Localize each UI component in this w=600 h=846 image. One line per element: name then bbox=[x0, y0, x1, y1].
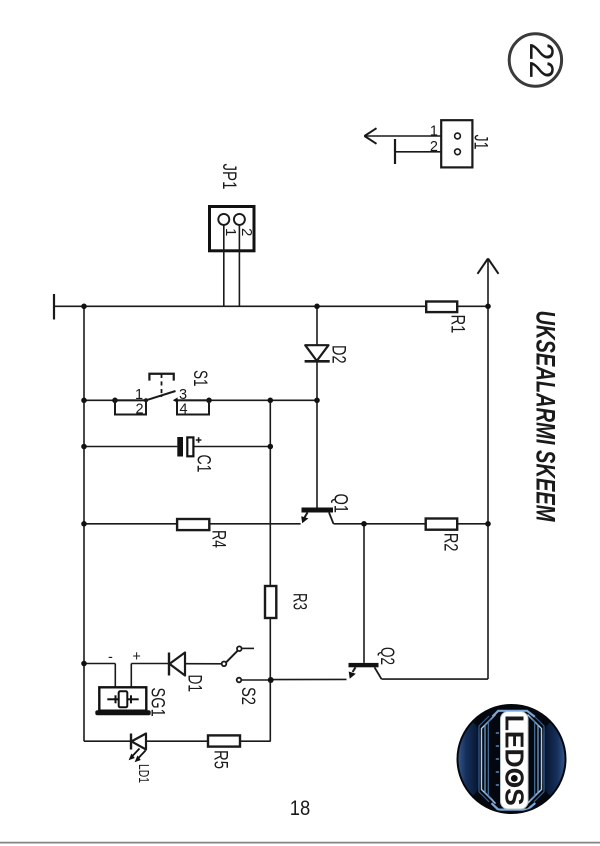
svg-text:LEDOS: LEDOS bbox=[500, 715, 530, 806]
svg-text:S1: S1 bbox=[189, 370, 210, 387]
svg-text:18: 18 bbox=[290, 797, 311, 820]
svg-text:2: 2 bbox=[430, 139, 438, 155]
svg-text:R4: R4 bbox=[208, 530, 229, 548]
svg-text:R3: R3 bbox=[288, 593, 309, 610]
svg-text:JP1: JP1 bbox=[218, 164, 239, 190]
svg-text:R2: R2 bbox=[440, 533, 461, 552]
svg-text:4: 4 bbox=[179, 401, 187, 417]
svg-text:LD1: LD1 bbox=[135, 764, 151, 783]
svg-text:C1: C1 bbox=[193, 455, 214, 473]
svg-text:D1: D1 bbox=[184, 675, 205, 693]
svg-text:S2: S2 bbox=[237, 687, 258, 705]
svg-text:2: 2 bbox=[238, 228, 255, 236]
svg-text:Q1: Q1 bbox=[330, 494, 351, 514]
svg-text:-: - bbox=[108, 650, 113, 666]
svg-text:R1: R1 bbox=[447, 315, 468, 334]
svg-text:J1: J1 bbox=[470, 135, 491, 150]
svg-text:UKSEALARMI SKEEM: UKSEALARMI SKEEM bbox=[530, 311, 560, 522]
svg-text:SG1: SG1 bbox=[147, 688, 168, 717]
svg-text:22: 22 bbox=[522, 43, 560, 79]
svg-text:D2: D2 bbox=[328, 345, 349, 364]
svg-text:+: + bbox=[132, 649, 140, 665]
svg-text:2: 2 bbox=[135, 401, 143, 417]
svg-text:1: 1 bbox=[430, 123, 438, 139]
svg-text:Q2: Q2 bbox=[376, 647, 397, 665]
svg-text:R5: R5 bbox=[210, 750, 231, 769]
